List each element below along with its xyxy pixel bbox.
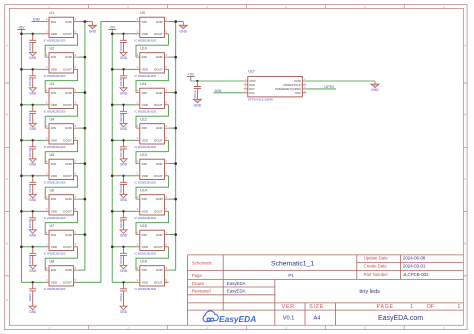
svg-text:DIN: DIN — [51, 126, 56, 130]
svg-text:D: D — [464, 241, 466, 245]
svg-text:V0.1: V0.1 — [283, 316, 295, 322]
svg-text:IC WS2812B-2020: IC WS2812B-2020 — [44, 287, 66, 291]
svg-text:U13: U13 — [140, 153, 147, 157]
svg-text:VDD: VDD — [142, 68, 149, 72]
svg-text:IC WS2812B-2020: IC WS2812B-2020 — [135, 145, 157, 149]
svg-text:100nF: 100nF — [119, 149, 123, 157]
svg-text:DOUT: DOUT — [154, 245, 163, 249]
svg-text:DIN: DIN — [51, 233, 56, 237]
svg-text:U5: U5 — [50, 153, 55, 157]
svg-text:DOUT: DOUT — [154, 174, 163, 178]
svg-text:GND: GND — [29, 92, 37, 96]
svg-text:DOUT: DOUT — [63, 103, 72, 107]
svg-text:DIN: DIN — [51, 162, 56, 166]
svg-text:DOUT: DOUT — [154, 103, 163, 107]
svg-text:JLCPCB-002: JLCPCB-002 — [403, 272, 429, 277]
svg-text:GND: GND — [156, 162, 164, 166]
svg-text:GND: GND — [120, 198, 128, 202]
svg-text:VDD: VDD — [51, 103, 58, 107]
svg-text:GND: GND — [65, 197, 73, 201]
svg-text:100uF: 100uF — [28, 293, 32, 302]
svg-text:VDD: VDD — [142, 138, 149, 142]
svg-text:DOUT: DOUT — [63, 245, 72, 249]
svg-text:GND: GND — [156, 268, 164, 272]
svg-text:U9: U9 — [140, 11, 145, 15]
svg-text:DIN: DIN — [142, 162, 147, 166]
svg-text:EasyEDA: EasyEDA — [219, 314, 256, 324]
svg-text:GND: GND — [29, 198, 37, 202]
svg-text:IC WS2812B-2020: IC WS2812B-2020 — [135, 110, 157, 114]
svg-text:Update Date: Update Date — [364, 256, 389, 261]
svg-text:DIN: DIN — [51, 91, 56, 95]
svg-text:B: B — [464, 113, 466, 117]
svg-text:UPDI: UPDI — [324, 84, 334, 89]
svg-text:GND: GND — [120, 163, 128, 167]
svg-text:GND: GND — [120, 234, 128, 238]
svg-text:DIN: DIN — [142, 197, 147, 201]
svg-text:+5V: +5V — [18, 25, 25, 29]
svg-text:VDD: VDD — [51, 68, 58, 72]
svg-text:U6: U6 — [50, 189, 55, 193]
svg-text:100nF: 100nF — [28, 185, 32, 193]
svg-text:DIN: DIN — [142, 20, 147, 24]
svg-text:100nF: 100nF — [119, 220, 123, 228]
svg-text:DIN: DIN — [215, 88, 222, 93]
svg-text:GND: GND — [89, 29, 97, 33]
svg-text:GND: GND — [65, 91, 73, 95]
svg-text:PA1: PA1 — [249, 91, 255, 95]
svg-text:EasyEDA: EasyEDA — [227, 281, 246, 286]
svg-text:GND: GND — [29, 269, 37, 273]
svg-text:IC WS2812B-2020: IC WS2812B-2020 — [44, 110, 66, 114]
svg-text:IC WS2812B-2020: IC WS2812B-2020 — [135, 181, 157, 185]
svg-text:DOUT: DOUT — [154, 68, 163, 72]
svg-text:E: E — [6, 298, 8, 302]
svg-text:IC WS2812B-2020: IC WS2812B-2020 — [44, 181, 66, 185]
svg-text:VDD: VDD — [142, 32, 149, 36]
svg-text:Schematic1_1: Schematic1_1 — [271, 260, 314, 267]
svg-text:IC WS2812B-2020: IC WS2812B-2020 — [44, 145, 66, 149]
svg-text:100nF: 100nF — [119, 256, 123, 264]
svg-text:PA2: PA2 — [295, 91, 301, 95]
svg-text:U3: U3 — [50, 82, 55, 86]
svg-text:U8: U8 — [50, 260, 55, 264]
svg-text:GND: GND — [156, 126, 164, 130]
svg-text:GND: GND — [180, 29, 188, 33]
svg-text:GND: GND — [65, 126, 73, 130]
svg-text:100nF: 100nF — [28, 220, 32, 228]
svg-text:+5V: +5V — [109, 25, 116, 29]
svg-text:VER: VER — [282, 304, 295, 310]
svg-text:VDD: VDD — [142, 103, 149, 107]
svg-text:VDD: VDD — [51, 280, 58, 284]
svg-text:DOUT: DOUT — [63, 280, 72, 284]
svg-text:1: 1 — [410, 304, 413, 310]
svg-text:EasyEDA: EasyEDA — [227, 289, 246, 294]
svg-text:100nF: 100nF — [119, 185, 123, 193]
svg-text:IC WS2812B-2020: IC WS2812B-2020 — [44, 74, 66, 78]
svg-text:IC WS2812B-2020: IC WS2812B-2020 — [44, 216, 66, 220]
svg-text:DOUT: DOUT — [63, 174, 72, 178]
svg-text:GND: GND — [120, 269, 128, 273]
svg-text:100nF: 100nF — [119, 43, 123, 51]
svg-text:GND: GND — [65, 20, 73, 24]
svg-text:GND: GND — [194, 103, 202, 107]
svg-text:DOUT: DOUT — [63, 209, 72, 213]
svg-text:VDD: VDD — [142, 209, 149, 213]
svg-text:U7: U7 — [50, 224, 55, 228]
svg-text:DOUT: DOUT — [63, 32, 72, 36]
svg-text:GND: GND — [65, 268, 73, 272]
svg-text:DIN: DIN — [51, 268, 56, 272]
svg-text:GND: GND — [371, 88, 379, 92]
svg-text:GND: GND — [156, 20, 164, 24]
svg-text:VDD: VDD — [51, 209, 58, 213]
svg-text:DIN: DIN — [51, 55, 56, 59]
svg-text:+5V: +5V — [188, 73, 195, 77]
svg-text:U15: U15 — [140, 224, 147, 228]
svg-text:Create Date: Create Date — [364, 263, 388, 268]
svg-text:100nF: 100nF — [28, 114, 32, 122]
svg-text:DOUT: DOUT — [154, 209, 163, 213]
svg-text:tiny leds: tiny leds — [359, 289, 380, 295]
svg-text:ATTINY412-SSNR: ATTINY412-SSNR — [248, 98, 274, 102]
svg-text:IC WS2812B-2020: IC WS2812B-2020 — [135, 74, 157, 78]
svg-text:GND: GND — [65, 233, 73, 237]
svg-text:GND: GND — [156, 233, 164, 237]
svg-text:100nF: 100nF — [193, 90, 197, 98]
svg-text:U16: U16 — [140, 260, 147, 264]
svg-text:IC WS2812B-2020: IC WS2812B-2020 — [135, 39, 157, 43]
svg-text:SIZE: SIZE — [309, 304, 324, 310]
svg-text:VDD: VDD — [142, 280, 149, 284]
svg-text:U1: U1 — [50, 11, 55, 15]
svg-text:100nF: 100nF — [28, 149, 32, 157]
svg-text:VDD: VDD — [51, 174, 58, 178]
svg-text:VDD: VDD — [142, 174, 149, 178]
svg-text:GND: GND — [156, 197, 164, 201]
svg-text:EasyEDA.com: EasyEDA.com — [378, 315, 423, 322]
svg-text:Drawn: Drawn — [192, 281, 205, 286]
svg-text:C: C — [6, 177, 8, 181]
svg-text:A: A — [6, 44, 8, 48]
svg-text:PAGE: PAGE — [377, 304, 394, 310]
svg-text:U14: U14 — [140, 189, 147, 193]
svg-text:DIN: DIN — [142, 91, 147, 95]
svg-text:VDD: VDD — [51, 138, 58, 142]
svg-text:DOUT: DOUT — [154, 32, 163, 36]
svg-text:U4: U4 — [50, 118, 55, 122]
svg-text:DOUT: DOUT — [63, 68, 72, 72]
svg-text:GND: GND — [120, 56, 128, 60]
svg-text:DIN: DIN — [51, 197, 56, 201]
svg-text:OF: OF — [427, 304, 434, 310]
svg-text:GND: GND — [156, 91, 164, 95]
svg-text:2024-06-08: 2024-06-08 — [403, 256, 426, 261]
svg-text:C: C — [464, 177, 466, 181]
svg-text:GND: GND — [120, 127, 128, 131]
svg-text:VDD: VDD — [51, 32, 58, 36]
svg-text:GND: GND — [120, 310, 128, 314]
svg-text:P1: P1 — [288, 273, 294, 278]
svg-text:GND: GND — [65, 55, 73, 59]
svg-text:DIN: DIN — [142, 233, 147, 237]
svg-text:VDD: VDD — [51, 245, 58, 249]
svg-text:IC WS2812B-2020: IC WS2812B-2020 — [135, 252, 157, 256]
svg-text:100nF: 100nF — [28, 43, 32, 51]
svg-text:DOUT: DOUT — [154, 280, 163, 284]
svg-text:Part Number: Part Number — [364, 272, 389, 277]
svg-text:GND: GND — [29, 127, 37, 131]
svg-text:DOUT: DOUT — [154, 138, 163, 142]
svg-text:100uF: 100uF — [119, 293, 123, 302]
svg-text:GND: GND — [120, 92, 128, 96]
svg-text:100nF: 100nF — [28, 256, 32, 264]
svg-text:DIN: DIN — [33, 16, 40, 21]
svg-text:Reviewed: Reviewed — [192, 289, 211, 294]
svg-text:GND: GND — [29, 163, 37, 167]
svg-text:DOUT: DOUT — [63, 138, 72, 142]
svg-text:Schematic: Schematic — [192, 260, 213, 265]
svg-text:A4: A4 — [313, 316, 320, 322]
svg-text:VDD: VDD — [142, 245, 149, 249]
svg-text:GND: GND — [29, 310, 37, 314]
svg-text:IC WS2812B-2020: IC WS2812B-2020 — [135, 216, 157, 220]
svg-text:DIN: DIN — [51, 20, 56, 24]
svg-text:U17: U17 — [248, 70, 255, 74]
svg-text:GND: GND — [29, 234, 37, 238]
svg-text:100nF: 100nF — [28, 78, 32, 86]
svg-text:IC WS2812B-2020: IC WS2812B-2020 — [44, 252, 66, 256]
svg-text:IC WS2812B-2020: IC WS2812B-2020 — [135, 287, 157, 291]
svg-text:A: A — [464, 44, 466, 48]
svg-text:Page: Page — [192, 273, 203, 278]
svg-text:D: D — [6, 241, 8, 245]
svg-text:GND: GND — [65, 162, 73, 166]
svg-text:2024-03-01: 2024-03-01 — [403, 263, 426, 268]
svg-text:1: 1 — [458, 304, 461, 310]
svg-text:U11: U11 — [140, 82, 146, 86]
svg-text:GND: GND — [29, 56, 37, 60]
svg-text:DIN: DIN — [142, 268, 147, 272]
svg-text:100nF: 100nF — [119, 114, 123, 122]
svg-text:U10: U10 — [140, 47, 147, 51]
svg-text:B: B — [6, 113, 8, 117]
svg-text:GND: GND — [156, 55, 164, 59]
svg-text:DIN: DIN — [142, 126, 147, 130]
svg-text:IC WS2812B-2020: IC WS2812B-2020 — [44, 39, 66, 43]
svg-text:U2: U2 — [50, 47, 55, 51]
svg-text:100nF: 100nF — [119, 78, 123, 86]
svg-text:DIN: DIN — [142, 55, 147, 59]
svg-text:U12: U12 — [140, 118, 147, 122]
